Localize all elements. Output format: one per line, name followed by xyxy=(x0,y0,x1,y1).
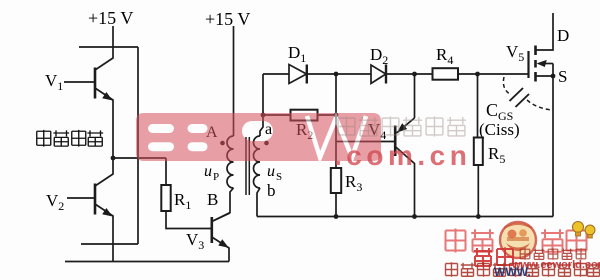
node source dot xyxy=(551,74,556,79)
resistor R2 xyxy=(291,110,318,121)
svg-text:D: D xyxy=(557,26,569,45)
yellow icons xyxy=(573,222,584,233)
wire R3 bottom lead xyxy=(335,193,337,217)
wire +15V left vertical xyxy=(112,26,114,47)
red big chars right xyxy=(541,229,586,253)
node V4 collector dot xyxy=(412,214,417,219)
svg-text:D2: D2 xyxy=(370,45,388,67)
svg-text:P: P xyxy=(213,171,219,183)
svg-text:u: u xyxy=(267,163,275,180)
resistor R5 xyxy=(474,138,483,166)
wire bottom rail xyxy=(257,216,553,218)
node secondary polarity dot xyxy=(264,141,269,146)
svg-text:D1: D1 xyxy=(288,43,306,65)
svg-text:(Ciss): (Ciss) xyxy=(479,120,520,139)
wire lower horizontal to chip xyxy=(81,243,138,245)
transistor V1 xyxy=(64,47,113,158)
transformer secondary winding xyxy=(254,136,261,188)
emblem circle xyxy=(500,222,536,258)
wire right branch vertical xyxy=(137,47,139,244)
wire D1 cathode xyxy=(307,73,336,75)
capacitor CGS dashed leads xyxy=(503,77,511,95)
transformer core xyxy=(246,137,249,195)
wire R4 right lead xyxy=(458,73,478,75)
svg-text:u: u xyxy=(204,163,212,180)
transistor V4 xyxy=(336,74,415,217)
node V1/V2 junction dot xyxy=(111,156,116,161)
svg-text:R3: R3 xyxy=(345,172,362,194)
resistor R1 xyxy=(161,185,170,211)
wire R2 left lead xyxy=(263,114,291,116)
wire R1 bottom to V3 base xyxy=(166,211,211,229)
wire D1 anode xyxy=(263,73,289,75)
wire R2 right lead xyxy=(318,114,337,116)
node R5 bottom dot xyxy=(476,214,481,219)
svg-text:S: S xyxy=(558,67,567,86)
node gate branch dot xyxy=(475,72,480,77)
svg-text:R4: R4 xyxy=(436,45,453,67)
wire secondary bottom lead xyxy=(257,188,260,217)
resistor R4 xyxy=(433,68,459,80)
wire D2 anode xyxy=(336,73,371,75)
wire junction to R1 xyxy=(113,157,166,159)
svg-text:R1: R1 xyxy=(174,190,191,212)
node R3 bottom dot xyxy=(334,214,339,219)
watermark EEPW band xyxy=(136,113,381,161)
wire primary bottom to V3 collector xyxy=(212,188,234,222)
wire source vertical xyxy=(552,76,554,217)
node R2 right dot xyxy=(334,113,339,118)
red big chars left xyxy=(446,229,494,253)
wire D2 cathode xyxy=(386,73,415,75)
svg-text:V2: V2 xyxy=(46,191,64,213)
node D2 out dot xyxy=(412,72,417,77)
wire +15V middle vertical xyxy=(233,26,235,136)
svg-text:.com.cn: .com.cn xyxy=(334,140,471,171)
svg-text:+15 V: +15 V xyxy=(205,9,250,29)
wire gate wire xyxy=(478,73,529,75)
capacitor CGS plates xyxy=(510,88,530,107)
wire R4 left lead xyxy=(415,73,433,75)
resistor R3 xyxy=(331,168,341,193)
diode D1 xyxy=(289,65,307,84)
watermark gray chinese xyxy=(338,116,466,136)
node primary polarity dot xyxy=(220,141,225,146)
transformer primary winding xyxy=(227,136,234,188)
dark red small row xyxy=(520,248,586,260)
svg-text:V3: V3 xyxy=(186,230,204,252)
wire secondary top lead xyxy=(260,74,263,136)
mosfet V5 xyxy=(529,13,554,82)
watermark bottom right cluster xyxy=(446,222,600,280)
svg-text:+15 V: +15 V xyxy=(88,8,133,28)
wire R5 bottom lead xyxy=(477,165,479,217)
wire R5 top lead xyxy=(477,74,479,138)
svg-text:V5: V5 xyxy=(506,42,524,64)
svg-text:V1: V1 xyxy=(45,71,63,93)
wire top rail left xyxy=(79,46,138,48)
wire mid vertical x336 xyxy=(335,74,337,168)
svg-text:WWW.: WWW. xyxy=(494,265,531,279)
wire R1 top lead xyxy=(165,158,167,185)
svg-text:b: b xyxy=(267,181,276,200)
svg-text:B: B xyxy=(207,190,218,209)
svg-text:R5: R5 xyxy=(488,144,505,166)
transistor V2 xyxy=(67,158,113,262)
维图 red xyxy=(474,247,513,266)
node R2 left dot xyxy=(261,113,266,118)
bottom dark red row xyxy=(446,262,600,276)
svg-text:S: S xyxy=(276,171,282,183)
label 控制芯片 xyxy=(37,130,103,147)
transistor V3 xyxy=(212,213,230,262)
node D1 out dot xyxy=(334,72,339,77)
diode D2 xyxy=(371,65,386,84)
wire bottom-left rail xyxy=(65,261,229,263)
